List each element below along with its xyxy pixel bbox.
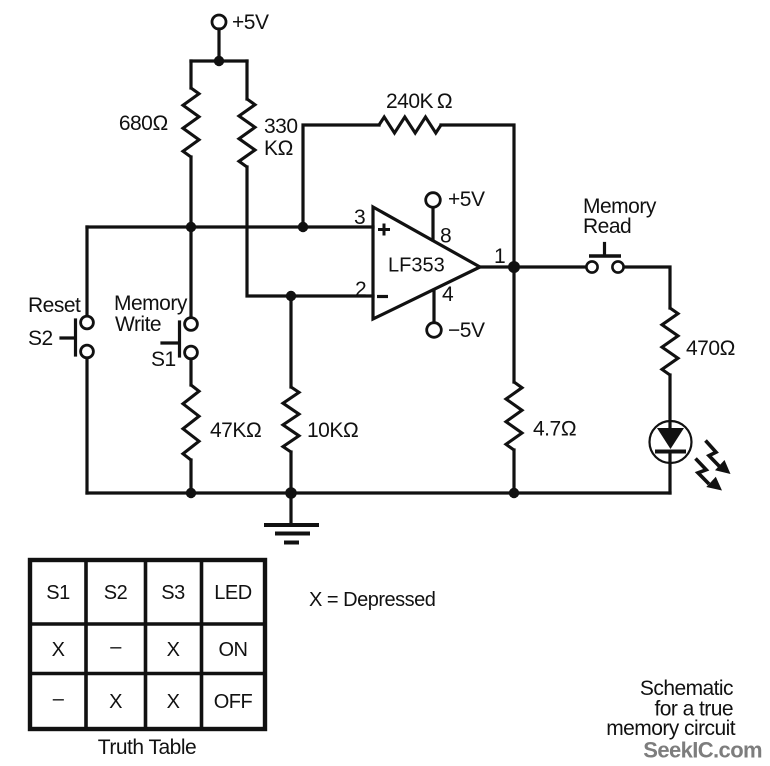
svg-text:S2: S2 [104, 582, 128, 604]
svg-text:240K Ω: 240K Ω [386, 90, 452, 113]
wire: S2 bottom to ground bus [85, 358, 88, 493]
LED D1 [650, 421, 692, 463]
svg-text:2: 2 [355, 278, 366, 301]
svg-text:X = Depressed: X = Depressed [309, 589, 435, 611]
svg-text:OFF: OFF [214, 691, 253, 713]
-5V terminal (pin 4) [427, 323, 442, 338]
svg-text:LED: LED [214, 582, 251, 604]
junction: supply branch node [214, 56, 224, 66]
switch S3 (Memory Read pushbutton) [586, 244, 623, 273]
svg-text:3: 3 [354, 206, 365, 229]
svg-text:X: X [167, 691, 180, 713]
wire: +5V terminal down to branch node [217, 29, 220, 61]
wire: branch horizontal to 680 and 330K [191, 59, 247, 62]
svg-text:680Ω: 680Ω [119, 112, 168, 135]
svg-text:X: X [167, 639, 180, 661]
svg-text:4.7Ω: 4.7Ω [533, 418, 576, 441]
resistor 10K ohm [283, 387, 299, 452]
svg-text:S2: S2 [28, 327, 53, 350]
wire: output node down to 4.7 ohm [512, 267, 515, 382]
junction: output node (pin1/240K/4.7) [508, 261, 520, 273]
wire: 240K right to output node [441, 125, 514, 267]
+5V terminal (pin 8) [426, 193, 441, 208]
svg-text:+5V: +5V [232, 11, 269, 34]
wire: plus-input rail horizontal [87, 225, 373, 228]
resistor 240K ohm (feedback) [379, 117, 441, 133]
svg-text:1: 1 [494, 245, 505, 268]
wire: 47K bottom to bus [189, 460, 192, 493]
svg-text:S1: S1 [151, 348, 176, 371]
svg-text:47KΩ: 47KΩ [210, 419, 262, 442]
resistor 680 ohm [183, 88, 199, 157]
svg-text:Memory: Memory [114, 292, 188, 315]
resistor 4.7 ohm [506, 382, 522, 450]
wire: S3 right to 470 ohm [624, 267, 670, 308]
svg-text:–: – [110, 636, 122, 658]
resistor 470 ohm [662, 308, 678, 375]
svg-text:–: – [53, 688, 65, 710]
ground symbol [264, 493, 319, 543]
switch S2 (Reset pushbutton) [61, 316, 93, 358]
svg-text:LF353: LF353 [388, 255, 445, 277]
truth table grid [30, 560, 265, 729]
wire: S1 bottom to 47K top [189, 359, 192, 385]
svg-text:KΩ: KΩ [264, 137, 293, 160]
junction: node A (680 / S1 / plus rail) [186, 222, 196, 232]
svg-text:−5V: −5V [448, 319, 485, 342]
op-amp plus input mark [378, 224, 390, 236]
resistor 47K ohm [183, 385, 199, 460]
wire: node B down to 10K [289, 296, 292, 387]
wire: left rail down to S2 [85, 227, 88, 316]
junction: ground tap on bus [285, 487, 297, 499]
svg-text:Reset: Reset [28, 294, 81, 317]
junction: node B (minus input / 10K) [286, 291, 296, 301]
svg-text:S3: S3 [161, 582, 185, 604]
wire: output pin 1 to switch S3 [480, 265, 586, 268]
svg-text:Truth Table: Truth Table [98, 736, 196, 759]
svg-text:S1: S1 [46, 582, 70, 604]
op-amp U1 LF353 triangle [373, 207, 480, 319]
wire: branch to 680 ohm top [189, 61, 192, 88]
svg-text:X: X [109, 691, 122, 713]
wire: 680 ohm bottom to plus-input rail [189, 157, 192, 227]
svg-text:10KΩ: 10KΩ [307, 419, 359, 442]
LED emission arrow 1 [706, 441, 731, 475]
svg-text:Read: Read [583, 215, 631, 238]
svg-text:SeekIC.com: SeekIC.com [643, 738, 762, 763]
resistor 330K ohm [239, 99, 255, 167]
junction: 47K on bus [186, 488, 196, 498]
wire: 330K bottom down and right to minus input [247, 167, 373, 296]
svg-text:X: X [52, 639, 65, 661]
svg-text:ON: ON [219, 639, 248, 661]
junction: 240K feedback tap on plus rail [298, 222, 308, 232]
svg-text:4: 4 [442, 283, 454, 306]
ground bus wire (bottom rail) [87, 491, 670, 494]
junction: 4.7 ohm on bus [509, 488, 519, 498]
svg-text:330: 330 [264, 115, 298, 138]
op-amp minus input mark [377, 295, 388, 298]
svg-text:8: 8 [440, 225, 451, 248]
wire: node A down to S1 [189, 227, 192, 317]
wire: pin 4 to -5V terminal [432, 290, 435, 322]
switch S1 (Memory Write pushbutton) [162, 318, 197, 359]
wire: LED cathode to bus [668, 454, 671, 494]
wire: pin 8 to +5V terminal [431, 208, 434, 240]
+5V supply terminal (top) [212, 15, 226, 29]
wire: 4.7 ohm bottom to bus [512, 450, 515, 493]
wire: branch to 330K top [245, 61, 248, 99]
wire: feedback tap up to 240K left [303, 125, 379, 227]
wire: 10K bottom to bus [289, 452, 292, 493]
LED emission arrow 2 [696, 459, 723, 491]
svg-text:Write: Write [115, 313, 161, 336]
svg-text:470Ω: 470Ω [686, 337, 735, 360]
svg-text:+5V: +5V [448, 188, 485, 211]
wire: 470 ohm to LED anode [668, 375, 671, 428]
